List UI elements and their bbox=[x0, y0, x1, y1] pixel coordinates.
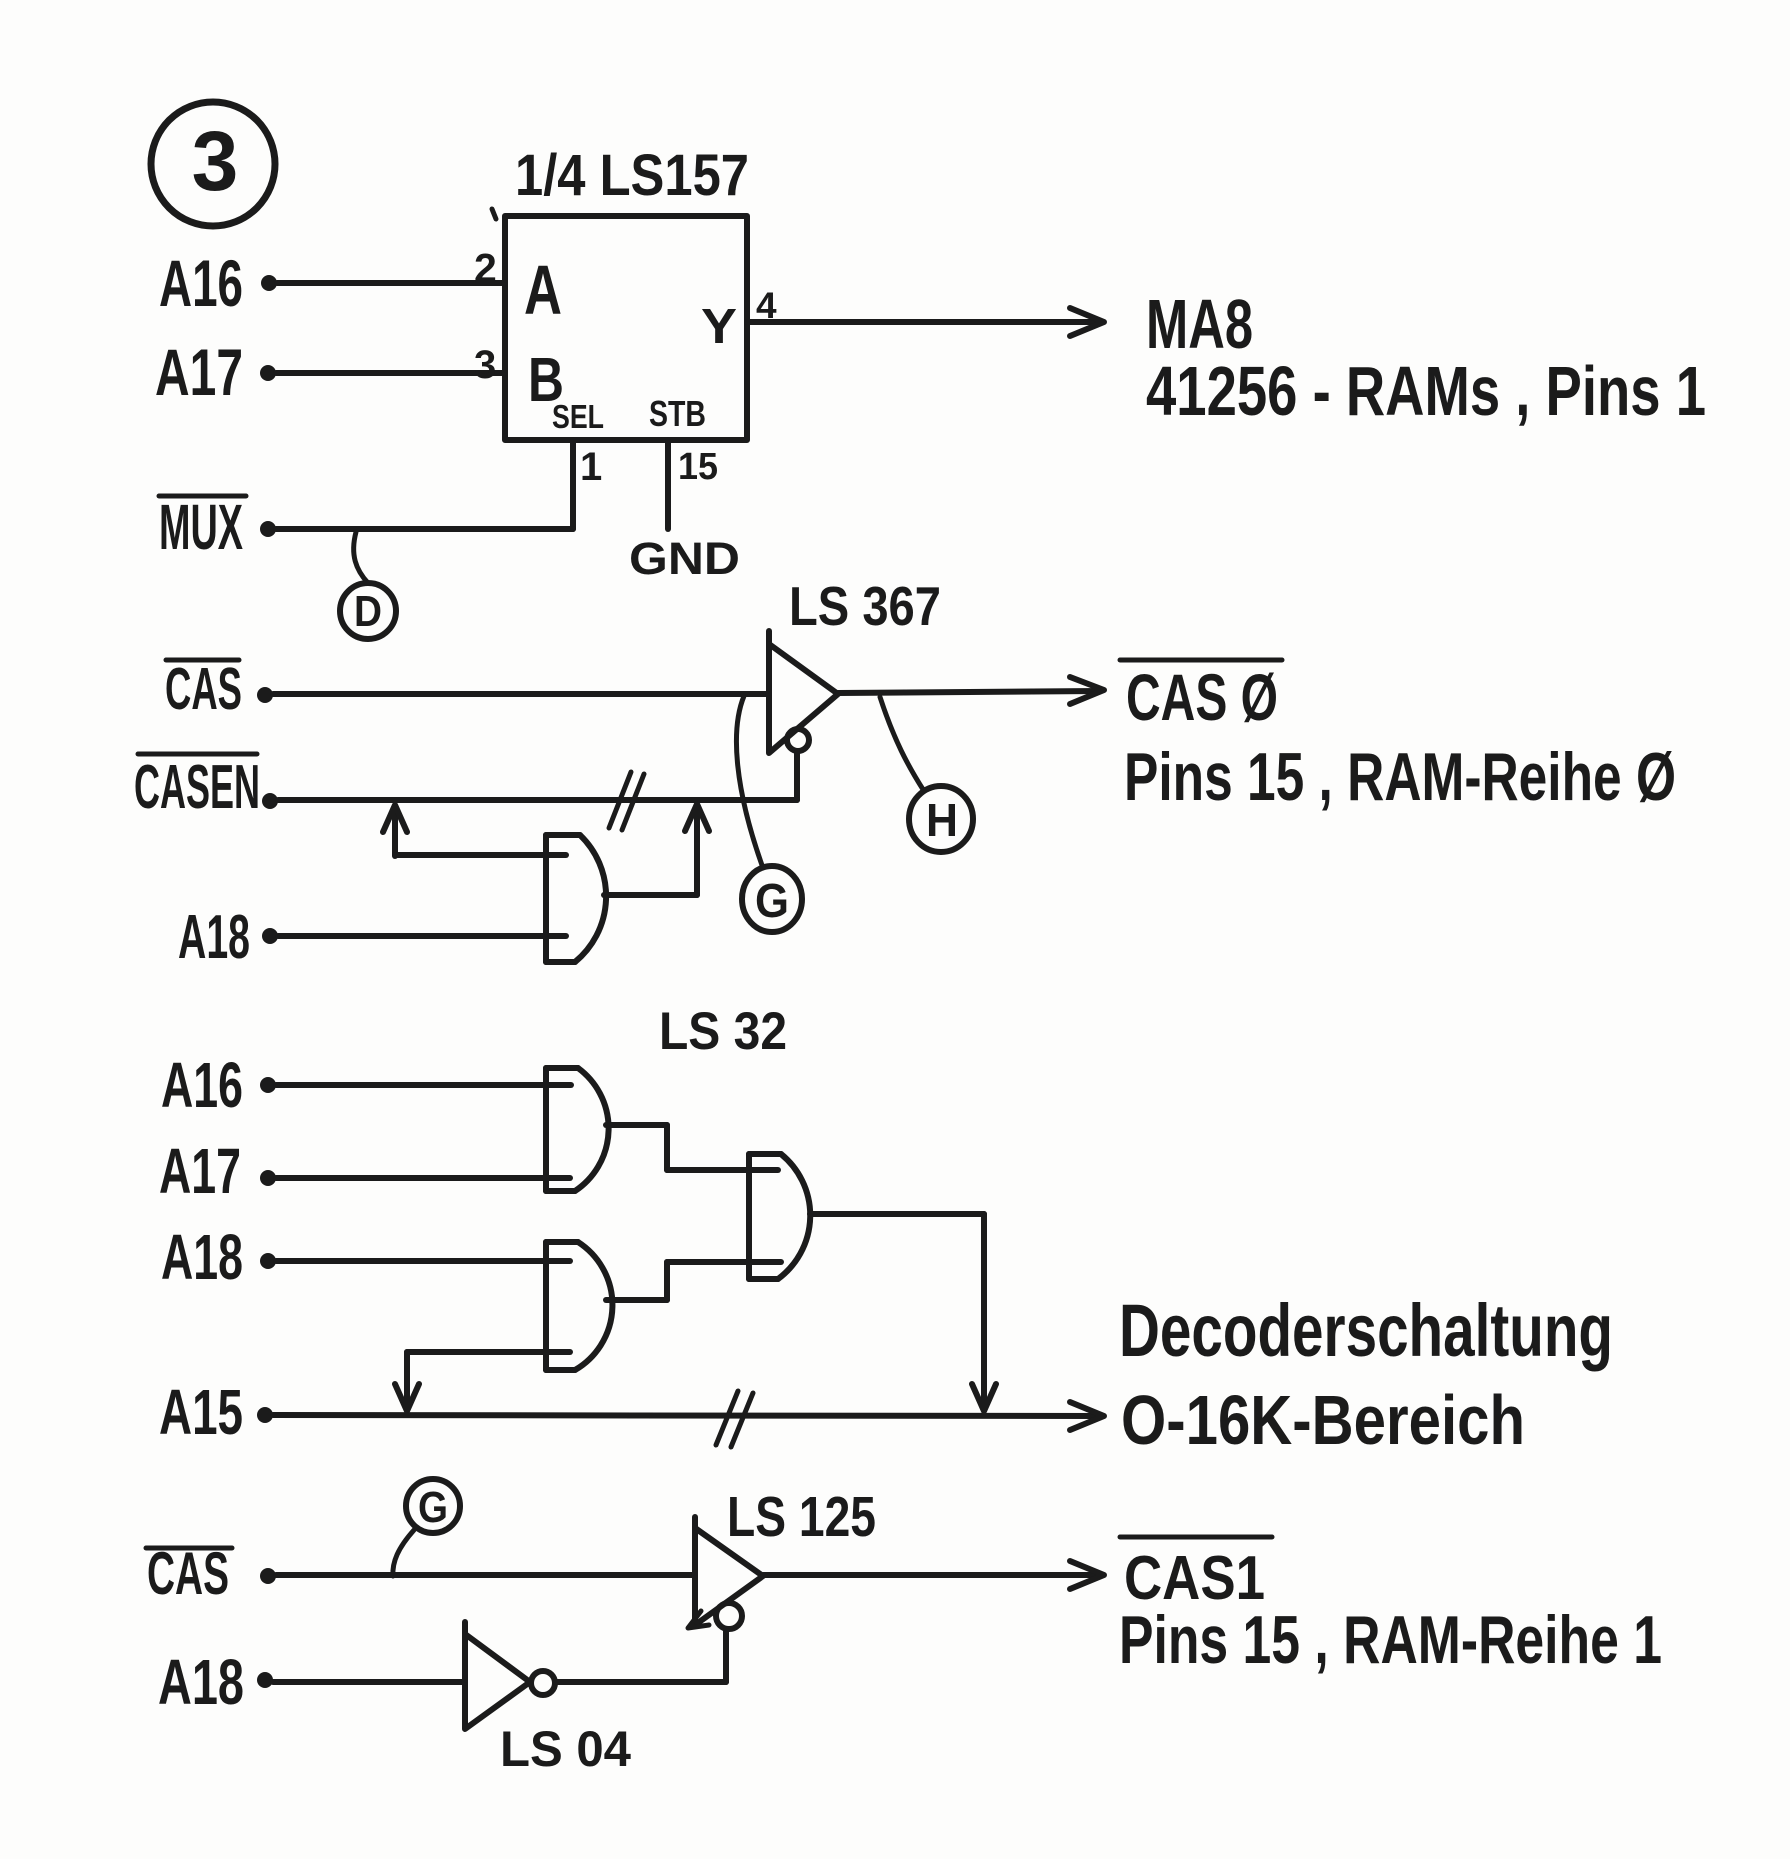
node A18 input dot bbox=[262, 928, 278, 944]
wire A17 to gate U4a bbox=[276, 1175, 570, 1181]
leader from G to CAS bbox=[393, 1530, 414, 1576]
node CAS input dot bbox=[257, 687, 273, 703]
leader to label G bbox=[736, 696, 763, 868]
node A18 dot bbox=[257, 1672, 273, 1688]
net label CASEN with overline bbox=[134, 753, 260, 822]
wire U4a output to U4c bbox=[606, 1125, 778, 1170]
svg-text:A18: A18 bbox=[161, 1221, 243, 1293]
svg-text:A17: A17 bbox=[159, 1135, 241, 1207]
node MUX input dot bbox=[260, 521, 276, 537]
label circle G bbox=[742, 866, 802, 932]
wire A18 to gate U3 bbox=[278, 933, 566, 939]
gate U4c bbox=[749, 1154, 810, 1279]
wire U1 pin 1 SEL bbox=[570, 440, 576, 529]
svg-text:3: 3 bbox=[474, 343, 496, 387]
svg-text:G: G bbox=[755, 875, 789, 928]
buffer U2 LS367 triangle bbox=[769, 631, 838, 753]
svg-text:H: H bbox=[926, 794, 958, 846]
net label CAS1 with overline bbox=[1120, 1537, 1272, 1613]
page number circle 3 bbox=[151, 102, 275, 226]
node A18 dot bbox=[260, 1253, 276, 1269]
net label CAS0 with overline bbox=[1120, 660, 1282, 734]
wire A18 to inverter U6 bbox=[273, 1679, 465, 1685]
wire junction arrow up to CASEN bbox=[383, 805, 407, 856]
wire U2 enable to CASEN bbox=[794, 751, 800, 800]
node CASEN input dot bbox=[262, 793, 278, 809]
net label MUX with overline bbox=[159, 491, 246, 563]
gate U3 bbox=[546, 835, 606, 962]
wire A15 bbox=[273, 1402, 1104, 1430]
label circle D bbox=[340, 583, 396, 639]
svg-text:CAS: CAS bbox=[165, 656, 242, 722]
wire CASEN bbox=[278, 797, 797, 803]
svg-text:CASEN: CASEN bbox=[134, 753, 260, 822]
IC U1 LS157 multiplexer box bbox=[492, 209, 747, 440]
wire Y output to MA8 bbox=[747, 308, 1104, 336]
svg-text:CAS: CAS bbox=[147, 1540, 229, 1607]
svg-text:1: 1 bbox=[580, 445, 602, 489]
svg-text:1/4 LS157: 1/4 LS157 bbox=[515, 143, 749, 208]
wire CAS1 output bbox=[763, 1561, 1104, 1589]
wire U5 enable bbox=[723, 1629, 729, 1682]
svg-text:41256 - RAMs , Pins 1: 41256 - RAMs , Pins 1 bbox=[1146, 352, 1706, 430]
net label CAS (second) with overline bbox=[146, 1540, 232, 1607]
wire A16 to gate U4a bbox=[276, 1082, 571, 1088]
node A17 dot bbox=[260, 1170, 276, 1186]
svg-text:SEL: SEL bbox=[552, 398, 604, 435]
inverter U6 LS04 triangle bbox=[465, 1622, 530, 1729]
svg-text:G: G bbox=[418, 1483, 448, 1532]
wire A18 to gate U4b bbox=[276, 1258, 570, 1264]
leader to label D bbox=[354, 532, 368, 583]
label circle H bbox=[909, 786, 973, 852]
svg-text:A15: A15 bbox=[159, 1376, 243, 1448]
node A17 input dot bbox=[260, 365, 276, 381]
net label CAS with overline bbox=[165, 656, 242, 722]
wire A15 tap to U4b input bbox=[395, 1352, 570, 1411]
wire U3 output to CASEN arrow bbox=[604, 804, 709, 895]
svg-text:MUX: MUX bbox=[159, 491, 243, 563]
buffer U5 LS125 triangle bbox=[695, 1517, 763, 1625]
svg-text:GND: GND bbox=[629, 533, 740, 584]
gate U4a bbox=[546, 1068, 609, 1191]
wire U6 output to U5 enable bbox=[555, 1679, 726, 1685]
gate U4b bbox=[546, 1242, 612, 1370]
svg-text:A16: A16 bbox=[161, 1049, 243, 1121]
svg-text:Y: Y bbox=[701, 300, 737, 354]
label circle G (second) bbox=[406, 1479, 460, 1533]
svg-text:Decoderschaltung: Decoderschaltung bbox=[1119, 1289, 1613, 1372]
svg-text:15: 15 bbox=[678, 446, 718, 488]
svg-text:2: 2 bbox=[474, 245, 497, 291]
svg-text:STB: STB bbox=[649, 393, 706, 434]
svg-text:3: 3 bbox=[192, 114, 239, 208]
svg-text:A17: A17 bbox=[155, 335, 243, 409]
svg-text:LS 125: LS 125 bbox=[727, 1485, 876, 1549]
svg-text:D: D bbox=[354, 587, 382, 636]
svg-text:Pins 15 , RAM-Reihe Ø: Pins 15 , RAM-Reihe Ø bbox=[1124, 739, 1676, 815]
wire A17 to U1 pin 3 bbox=[276, 370, 505, 376]
svg-text:A16: A16 bbox=[159, 246, 243, 320]
bus slash marks on CASEN bbox=[609, 772, 644, 830]
node A16 input dot bbox=[261, 275, 277, 291]
svg-text:LS 32: LS 32 bbox=[659, 1002, 787, 1061]
bubble U2 enable bbox=[787, 729, 809, 751]
wire A16 to U1 pin 2 bbox=[277, 280, 505, 286]
wire CAS0 output bbox=[838, 677, 1104, 704]
bubble U5 enable bbox=[716, 1603, 742, 1629]
pen hook at U5 corner bbox=[688, 1611, 709, 1628]
leader to label H bbox=[880, 697, 924, 791]
bus slash marks on A15 bbox=[716, 1391, 753, 1447]
svg-text:O-16K-Bereich: O-16K-Bereich bbox=[1121, 1381, 1525, 1459]
svg-text:CAS Ø: CAS Ø bbox=[1126, 660, 1278, 734]
wire to gate U3 input bbox=[395, 852, 566, 858]
wire U1 pin 15 STB bbox=[665, 440, 671, 529]
svg-text:Pins 15 , RAM-Reihe 1: Pins 15 , RAM-Reihe 1 bbox=[1119, 1602, 1662, 1678]
svg-text:A18: A18 bbox=[178, 903, 250, 972]
node A16 dot bbox=[260, 1077, 276, 1093]
svg-text:LS 04: LS 04 bbox=[500, 1721, 631, 1777]
node CAS dot bbox=[260, 1568, 276, 1584]
svg-text:LS 367: LS 367 bbox=[789, 575, 941, 637]
wire U4c output to A15 arrow bbox=[810, 1214, 996, 1411]
wire U4b output to U4c bbox=[606, 1262, 781, 1300]
bubble U6 output bbox=[531, 1671, 555, 1695]
svg-text:A: A bbox=[524, 251, 562, 329]
wire CAS to buffer U5 bbox=[276, 1572, 695, 1578]
svg-text:A18: A18 bbox=[158, 1646, 244, 1718]
wire MUX to SEL bbox=[276, 526, 573, 532]
wire CAS to buffer U2 bbox=[273, 691, 769, 697]
node A15 dot bbox=[257, 1407, 273, 1423]
